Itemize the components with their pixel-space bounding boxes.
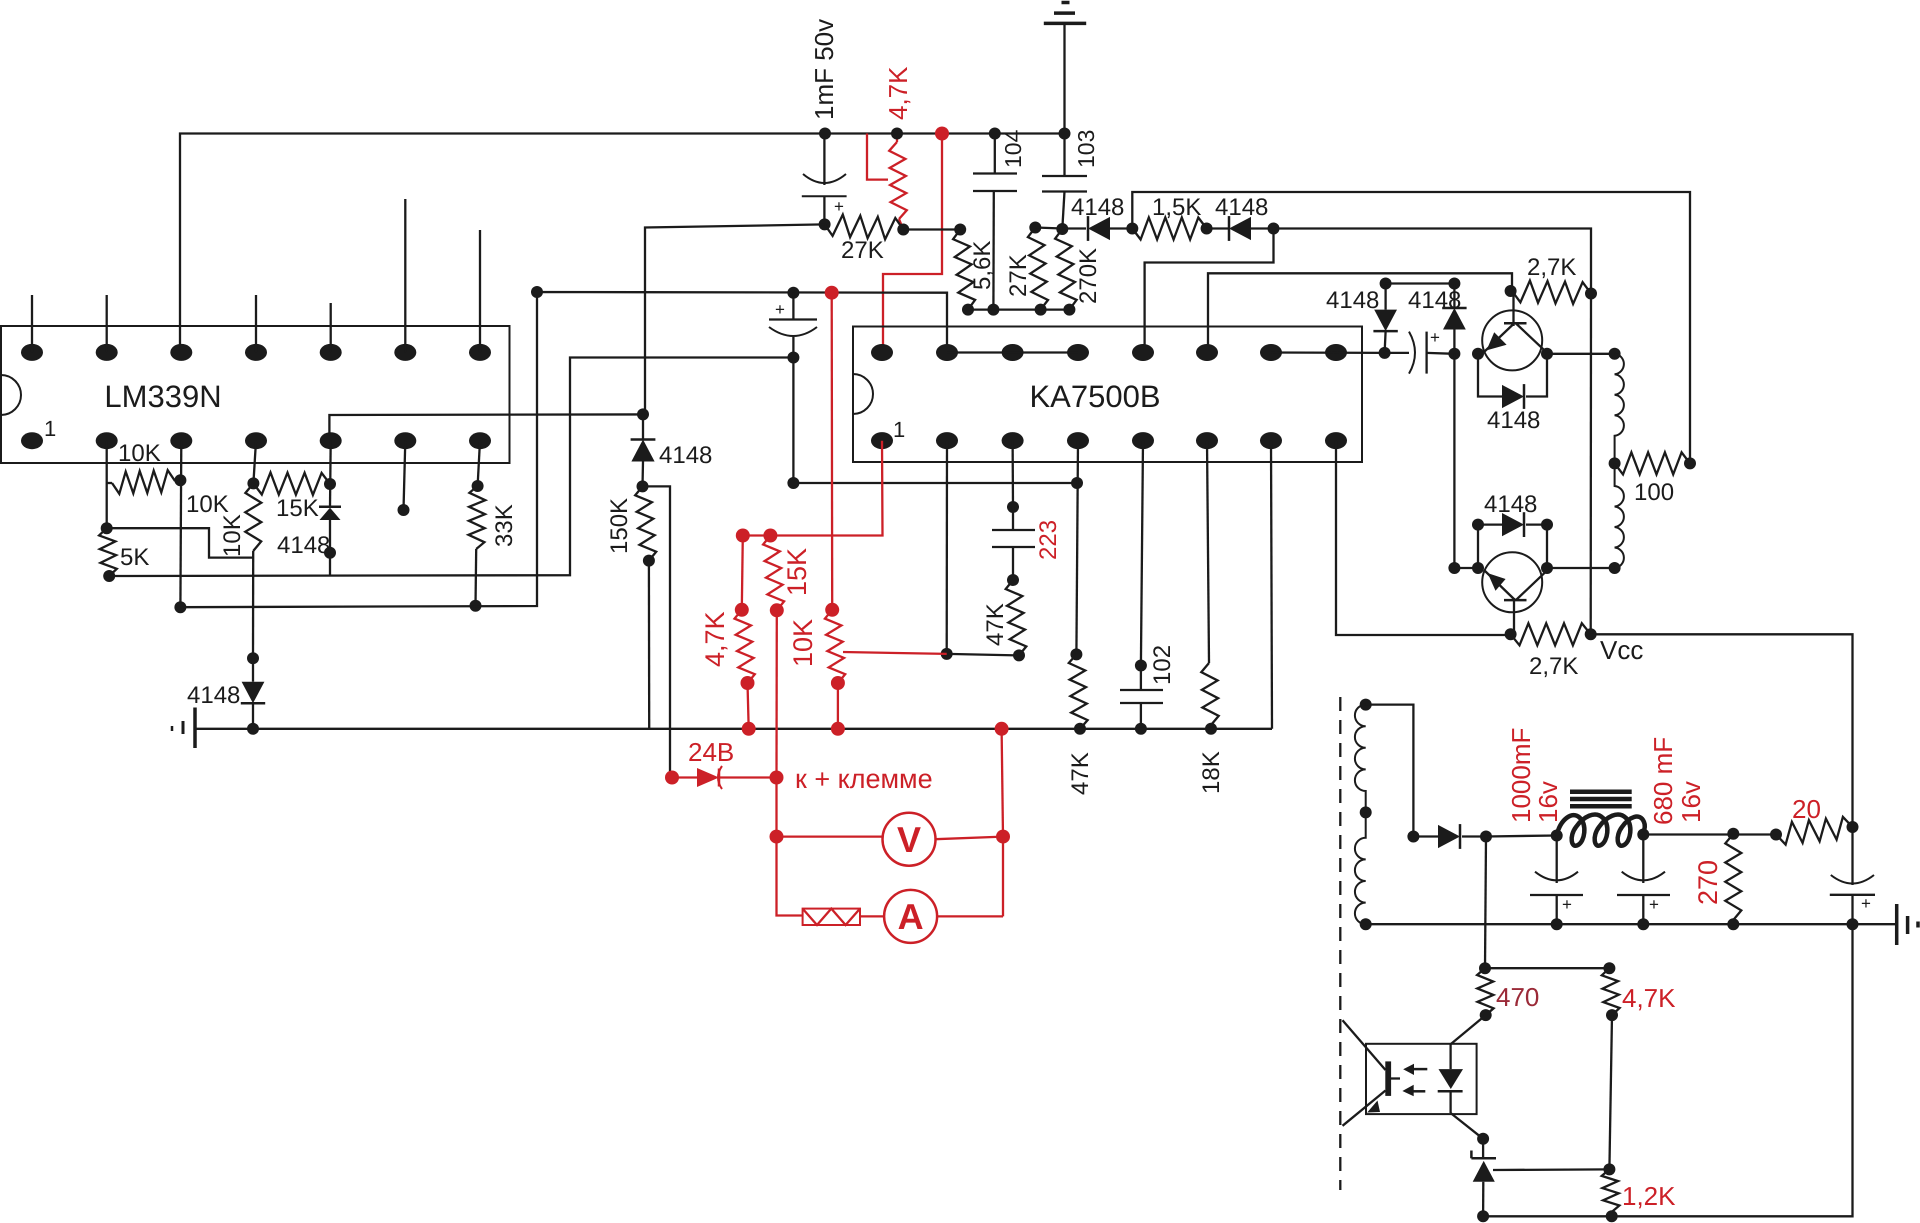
label 4148 D1 (1071, 194, 1124, 221)
ground (top, inverted) (1044, 3, 1086, 134)
wire LM339N pin6 stub (398, 441, 410, 516)
op-amp U2 KA7500B box (853, 327, 1362, 463)
wire D8 anode to Q2 emitter (1448, 354, 1478, 574)
LM339N bottom pins (21, 432, 491, 449)
svg-text:470: 470 (1496, 982, 1539, 1012)
svg-text:103: 103 (1073, 130, 1099, 168)
resistor 33K (469, 486, 486, 612)
label 4148 D9 (1487, 407, 1540, 434)
svg-text:+: + (775, 300, 785, 319)
svg-text:10K: 10K (186, 491, 229, 518)
svg-text:4,7K: 4,7K (883, 66, 913, 120)
transistor Q1 (1472, 285, 1553, 370)
optocoupler LED (1438, 1015, 1489, 1145)
svg-text:к + клемме: к + клемме (795, 764, 933, 794)
wire KA top pins 2-3-4 (947, 351, 1078, 353)
svg-text:5,6K: 5,6K (969, 241, 996, 290)
resistor 27K (825, 215, 910, 240)
wire secondary ground bus (1366, 923, 1897, 925)
isolation dashed line (1339, 697, 1341, 1190)
wire KA pin8 net (1336, 441, 1511, 635)
diode D10 4148 (1472, 512, 1553, 568)
wire LM339N pin4 net (247, 441, 259, 665)
resistor 1,5K (1132, 218, 1212, 240)
potentiometer 10K (red) (825, 603, 947, 736)
transistor Q2 (1472, 552, 1553, 634)
label 10K (red) (788, 619, 818, 667)
label 270K (1075, 248, 1102, 304)
inductor L2 (1557, 815, 1645, 846)
svg-text:+: + (1562, 895, 1572, 914)
wire output rail (1486, 830, 1563, 842)
label Vcc (1600, 635, 1643, 665)
op-amp U1 LM339N box (1, 326, 510, 463)
label 1000mF 16v (1506, 728, 1563, 823)
label 10K (2nd) (186, 491, 229, 518)
svg-text:20: 20 (1792, 794, 1821, 824)
resistor 20 (1776, 817, 1853, 845)
svg-text:KA7500B: KA7500B (1030, 379, 1161, 414)
svg-text:4148: 4148 (659, 442, 712, 469)
label 4148 D2 (1215, 194, 1268, 221)
svg-text:47K: 47K (982, 603, 1009, 646)
svg-text:1,2K: 1,2K (1622, 1181, 1676, 1211)
svg-text:100: 100 (1634, 479, 1674, 506)
svg-text:1000mF: 1000mF (1506, 728, 1536, 823)
label 4,7K (red) (883, 66, 913, 120)
svg-text:270: 270 (1693, 860, 1723, 905)
svg-text:4,7K: 4,7K (700, 611, 730, 667)
wire node A (5K row) (109, 358, 793, 577)
wire D7-D8 top (1386, 278, 1461, 290)
resistor 27K (2nd) (1028, 222, 1048, 316)
label 5K (120, 544, 149, 571)
wire LM339N pin5 net (324, 441, 336, 576)
label 5,6K (969, 241, 996, 290)
transformer winding (lower) (1355, 812, 1372, 930)
diode D1 4148 (1062, 216, 1138, 241)
resistor 2,7K (b) (1505, 623, 1597, 645)
red wire to potentiometer 10K (825, 286, 839, 610)
resistor 47K (a) (1006, 580, 1027, 661)
capacitor C3 (electrolytic) (1385, 328, 1461, 374)
wire LM339N pin3 net (174, 441, 186, 614)
label 270 (1693, 860, 1723, 905)
label 223 (red) (1035, 520, 1062, 560)
svg-text:4148: 4148 (1408, 287, 1461, 314)
wire feedback top (1132, 192, 1690, 463)
label pin 1 KA7500B (893, 417, 905, 442)
label 33K (491, 504, 518, 547)
svg-text:24B: 24B (688, 737, 734, 767)
wire D2 to pin 5 (1145, 229, 1274, 353)
resistor 270K (1055, 229, 1077, 316)
capacitor C4 (electrolytic) (1830, 827, 1875, 930)
label 10K (118, 440, 161, 467)
label 20 (1792, 794, 1821, 824)
LM339N top pins (21, 344, 491, 361)
label 27K (841, 237, 884, 264)
resistor 15K (red) (763, 536, 784, 778)
inductor L1 (upper) (1609, 354, 1624, 470)
svg-text:V: V (897, 819, 921, 860)
resistor 5K (99, 522, 117, 582)
label pin 1 LM339N (44, 416, 56, 441)
label 4148 D7 (1326, 287, 1379, 314)
KA7500B top pins (871, 344, 1347, 361)
wire pin5 to D5 (329, 414, 643, 434)
svg-text:4,7K: 4,7K (1622, 983, 1676, 1013)
svg-text:Vcc: Vcc (1600, 635, 1643, 665)
svg-text:+: + (1861, 894, 1871, 913)
label 18K (1198, 751, 1225, 794)
capacitor 680mF 16v (1617, 835, 1670, 931)
diode D9 4148 (1478, 354, 1547, 409)
svg-text:16v: 16v (1533, 781, 1563, 823)
inductor L2 core (1570, 792, 1632, 807)
svg-text:1,5K: 1,5K (1152, 194, 1201, 221)
optocoupler U3 box (1366, 1044, 1477, 1114)
zener diode (1471, 1139, 1496, 1223)
wire Vcc rail (1590, 294, 1593, 635)
LM339N top pin stubs (32, 199, 480, 352)
diode 24B (red) (665, 766, 784, 789)
svg-text:4148: 4148 (1487, 407, 1540, 434)
capacitor C2 (electrolytic) (769, 287, 817, 364)
svg-text:27K: 27K (841, 237, 884, 264)
wire resistor bottoms (968, 308, 1069, 310)
svg-text:680 mF: 680 mF (1648, 737, 1678, 825)
label 4148 D8 (1408, 287, 1461, 314)
svg-text:+: + (1430, 328, 1440, 347)
wire KA pin3 net (1007, 441, 1019, 530)
resistor 470 (1477, 968, 1494, 1021)
label 4148 D5 (659, 442, 712, 469)
ground (bottom right) (1897, 904, 1918, 945)
svg-text:10K: 10K (118, 440, 161, 467)
label 1mF 50v (809, 19, 839, 120)
svg-text:33K: 33K (491, 504, 518, 547)
label 47K (b) (1067, 752, 1094, 795)
label 4,7K (opto) (1622, 983, 1676, 1013)
wire winding to D11 (1366, 705, 1420, 843)
label 100 (1634, 479, 1674, 506)
red wire KA pin1 to dividers (736, 441, 883, 543)
wire 150K to 24B diode (643, 486, 671, 777)
optocoupler phototransistor (1343, 1020, 1401, 1126)
label 102 (1149, 645, 1176, 685)
label 15K (red) (782, 548, 812, 596)
wire to pin 6 (1208, 273, 1512, 352)
wire LM339N pin7 net (472, 441, 484, 492)
inductor L1 (lower) (1609, 463, 1624, 574)
resistor 1,2K (1602, 1169, 1620, 1222)
label 104 (1000, 129, 1026, 168)
svg-text:4148: 4148 (1071, 194, 1124, 221)
label 1,5K (1152, 194, 1201, 221)
label 1,2K (1622, 1181, 1676, 1211)
diode D6 4148 (241, 658, 265, 735)
label 15K (276, 495, 319, 522)
wire right return (1612, 924, 1853, 1216)
wire 27K-270K tops (1035, 228, 1062, 229)
wire Vcc to output (1591, 634, 1859, 833)
diode D7 4148 (1373, 278, 1397, 353)
ammeter A (red) (860, 890, 1003, 943)
capacitor 1000mF 16v (1530, 836, 1583, 931)
red wire node to KA7500B pin 1 (883, 127, 949, 353)
wire LM339N pin2 net (106, 441, 108, 529)
svg-text:104: 104 (1000, 129, 1026, 168)
KA7500B bottom pins (871, 432, 1347, 449)
wire KA top pins 7-8 (1271, 347, 1391, 359)
wire main ground bus (195, 728, 1272, 730)
wire 27K to 5,6K (903, 224, 966, 236)
svg-text:150K: 150K (606, 498, 633, 554)
svg-text:4148: 4148 (187, 682, 240, 709)
svg-text:2,7K: 2,7K (1529, 653, 1578, 680)
wire to diode D5 anode (645, 224, 825, 414)
diode D11 (1413, 824, 1492, 849)
svg-text:223: 223 (1035, 520, 1062, 560)
label 10K (vertical) (219, 514, 246, 557)
capacitor 223 (992, 530, 1035, 586)
wire top bus to LM339N pin 3 (180, 134, 1065, 353)
resistor 4,7K (red) (735, 536, 756, 736)
label 27K (2nd) (1005, 254, 1032, 297)
label 4,7K (red, divider) (700, 611, 730, 667)
svg-text:4148: 4148 (1484, 491, 1537, 518)
label 4148 D10 (1484, 491, 1537, 518)
capacitor 103 (1042, 128, 1087, 236)
resistor 47K (b) (1069, 654, 1088, 734)
svg-text:47K: 47K (1067, 752, 1094, 795)
wire bottom row (1483, 1215, 1612, 1217)
label 680 mF 16v (1648, 737, 1706, 825)
resistor 5,6K (953, 230, 975, 316)
svg-text:A: A (898, 896, 924, 937)
potentiometer 4,7K (red) (867, 128, 907, 230)
svg-text:4148: 4148 (277, 532, 330, 559)
wire node B (pin3 to cap bus) (180, 286, 947, 607)
label 150K (606, 498, 633, 554)
svg-text:2,7K: 2,7K (1527, 254, 1576, 281)
svg-text:16v: 16v (1676, 781, 1706, 823)
svg-text:1mF 50v: 1mF 50v (809, 19, 839, 120)
ground (left) (172, 708, 195, 749)
label 2,7K (b) (1529, 653, 1578, 680)
resistor 150K (635, 486, 656, 728)
svg-text:5K: 5K (120, 544, 149, 571)
optocoupler light arrows (1402, 1064, 1427, 1097)
svg-text:10K: 10K (219, 514, 246, 557)
resistor 15K (253, 473, 336, 495)
svg-text:4148: 4148 (1326, 287, 1379, 314)
label 47K (a) (982, 603, 1009, 646)
shunt resistor (red) (803, 909, 860, 925)
capacitor 102 (1120, 690, 1163, 735)
label 470 (1496, 982, 1539, 1012)
svg-text:15K: 15K (782, 548, 812, 596)
wire Q1 collector to coil (1547, 348, 1621, 360)
wire to opto feed (1479, 837, 1615, 975)
label 24B (red) (688, 737, 734, 767)
wire cap2 to KA pin 4 (787, 358, 1083, 490)
wire D2 to Vcc rail (1274, 229, 1592, 294)
diode D2 4148 (1207, 216, 1280, 241)
wire KA pin4 net (1070, 441, 1082, 661)
diode D4 4148 (319, 507, 341, 520)
wire zener-4,7K (1493, 1168, 1609, 1171)
resistor 2,7K (a) (1512, 281, 1597, 304)
svg-text:27K: 27K (1005, 254, 1032, 297)
diode D5 4148 (631, 408, 656, 492)
resistor 18K (1201, 663, 1218, 735)
wire 5K top step (107, 528, 253, 557)
svg-text:1: 1 (44, 416, 56, 441)
wire Q2 collector (1547, 567, 1615, 569)
label LM339N (104, 379, 221, 414)
svg-text:270K: 270K (1075, 248, 1102, 304)
capacitor C1 1mF 50v (electrolytic) (802, 128, 847, 231)
svg-text:+: + (1649, 895, 1659, 914)
diode D8 4148 (1442, 284, 1466, 354)
wire KA pin7 net (1271, 441, 1272, 729)
transformer winding (upper) (1355, 699, 1372, 819)
wire KA pin2 net (941, 441, 1019, 660)
resistor 10K (horizontal) (107, 470, 187, 494)
resistor 270 (1725, 834, 1741, 930)
svg-text:10K: 10K (788, 619, 818, 667)
resistor 4,7K (opto) (1602, 968, 1620, 1175)
label 103 (1073, 130, 1099, 168)
svg-text:102: 102 (1149, 645, 1176, 685)
red wire to meters (770, 722, 1011, 917)
svg-text:LM339N: LM339N (104, 379, 221, 414)
label к + клемме (red) (795, 764, 933, 794)
wire KA pin6 net (1207, 441, 1209, 663)
label 4148 D6 (187, 682, 240, 709)
capacitor 104 (973, 128, 1017, 316)
label KA7500B (1030, 379, 1161, 414)
resistor 100 (1615, 452, 1696, 474)
label 4148 D4 (277, 532, 330, 559)
voltmeter V (red) (777, 813, 1004, 866)
wire rail after L2 (1637, 828, 1782, 841)
label 2,7K (a) (1527, 254, 1576, 281)
svg-text:18K: 18K (1198, 751, 1225, 794)
svg-text:15K: 15K (276, 495, 319, 522)
wire KA pin5 net (1135, 441, 1147, 690)
resistor 10K (vertical) (245, 483, 261, 551)
svg-text:1: 1 (893, 417, 905, 442)
svg-text:4148: 4148 (1215, 194, 1268, 221)
